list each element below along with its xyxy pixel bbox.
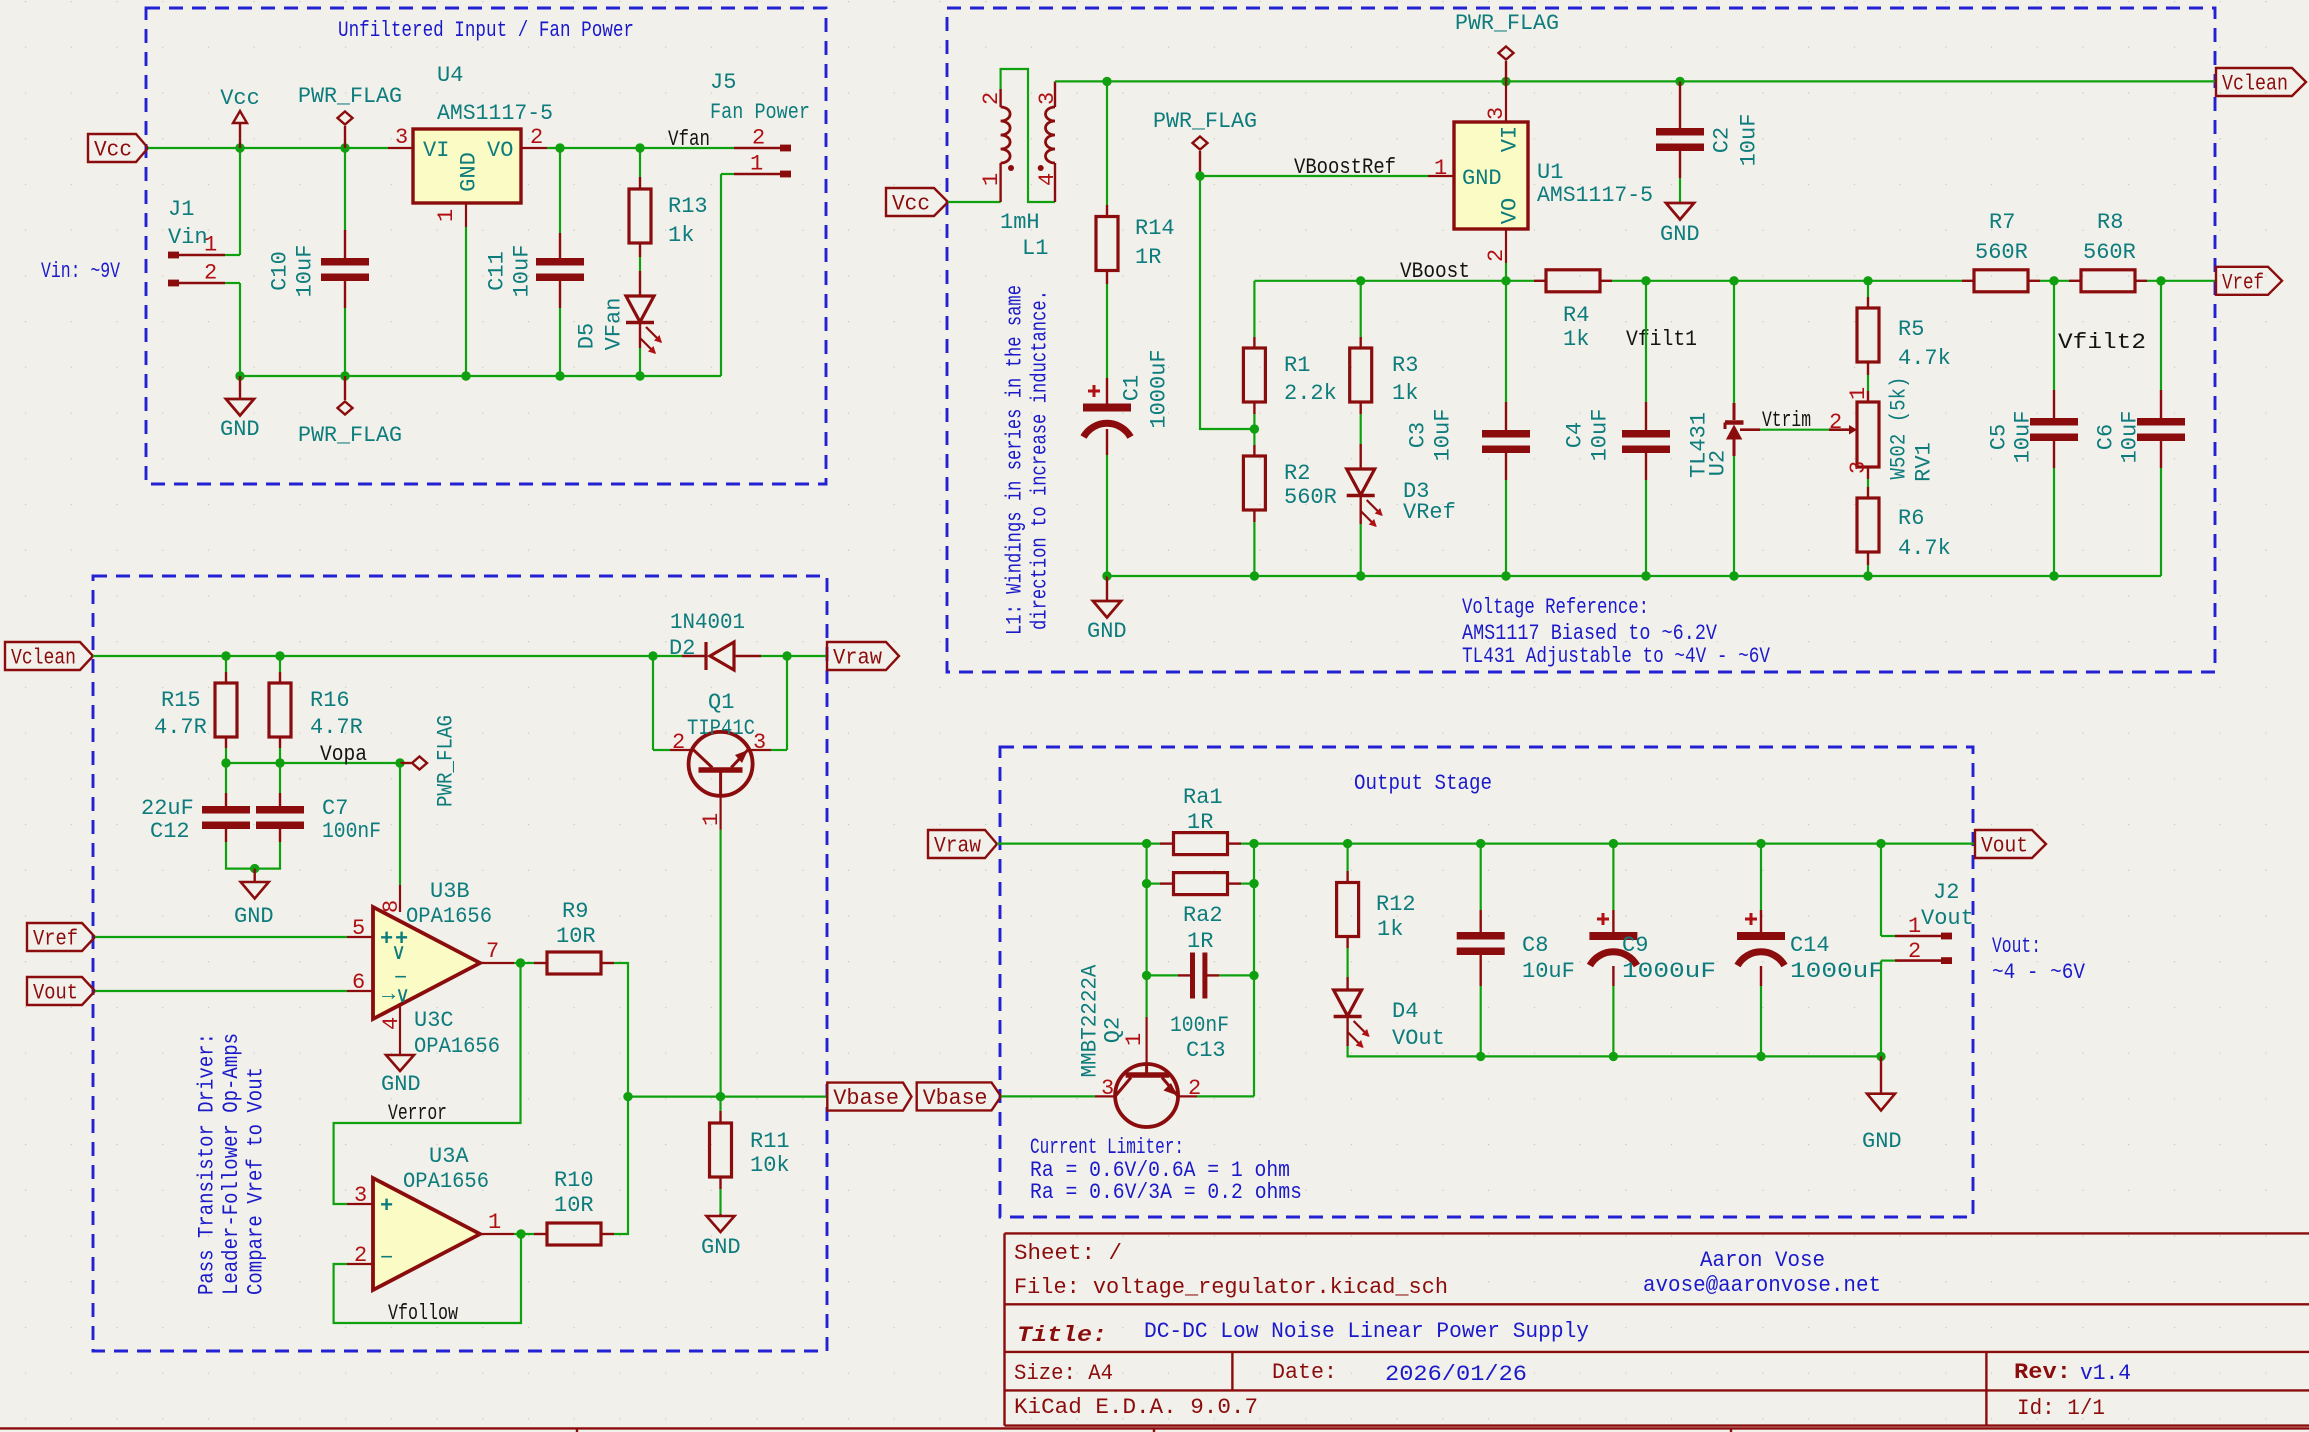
svg-text:GND: GND bbox=[1660, 222, 1700, 247]
svg-text:GND: GND bbox=[381, 1072, 421, 1097]
svg-text:2: 2 bbox=[1829, 410, 1842, 435]
svg-text:Vtrim: Vtrim bbox=[1762, 408, 1811, 433]
svg-text:GND: GND bbox=[1087, 619, 1127, 644]
svg-text:Ra1: Ra1 bbox=[1183, 785, 1223, 810]
svg-text:2: 2 bbox=[204, 261, 217, 286]
svg-text:1k: 1k bbox=[668, 223, 694, 248]
svg-text:2026/01/26: 2026/01/26 bbox=[1385, 1362, 1527, 1387]
svg-text:1R: 1R bbox=[1187, 929, 1213, 954]
svg-text:1R: 1R bbox=[1135, 245, 1161, 270]
svg-text:avose@aaronvose.net: avose@aaronvose.net bbox=[1643, 1273, 1881, 1298]
svg-text:Date:: Date: bbox=[1272, 1360, 1337, 1385]
svg-text:U3B: U3B bbox=[430, 879, 470, 904]
svg-text:R1: R1 bbox=[1284, 353, 1310, 378]
svg-text:10k: 10k bbox=[750, 1153, 790, 1178]
svg-text:4: 4 bbox=[1035, 173, 1060, 186]
svg-text:1: 1 bbox=[1846, 387, 1871, 400]
svg-text:R7: R7 bbox=[1989, 210, 2015, 235]
svg-text:10uF: 10uF bbox=[2011, 411, 2036, 464]
svg-text:L1: L1 bbox=[1022, 236, 1048, 261]
svg-text:1: 1 bbox=[750, 152, 763, 177]
svg-text:U2: U2 bbox=[1706, 450, 1731, 476]
svg-text:C10: C10 bbox=[268, 251, 293, 291]
svg-text:VI: VI bbox=[423, 138, 449, 163]
svg-text:2: 2 bbox=[1188, 1076, 1201, 1101]
svg-text:J1: J1 bbox=[168, 197, 194, 222]
svg-text:2: 2 bbox=[530, 125, 543, 150]
svg-text:1: 1 bbox=[1434, 156, 1447, 181]
svg-text:GND: GND bbox=[457, 152, 482, 192]
svg-text:Id: 1/1: Id: 1/1 bbox=[2017, 1396, 2105, 1421]
svg-text:Vin: Vin bbox=[168, 225, 208, 250]
svg-text:Vout: Vout bbox=[33, 981, 78, 1006]
svg-text:Vopa: Vopa bbox=[320, 742, 367, 767]
svg-text:DC-DC Low Noise Linear Power S: DC-DC Low Noise Linear Power Supply bbox=[1144, 1319, 1589, 1344]
svg-text:U4: U4 bbox=[437, 63, 463, 88]
svg-text:C9: C9 bbox=[1622, 933, 1648, 958]
svg-text:4: 4 bbox=[379, 1017, 404, 1030]
svg-text:C8: C8 bbox=[1522, 933, 1548, 958]
svg-text:10uF: 10uF bbox=[1737, 114, 1762, 167]
svg-text:Q1: Q1 bbox=[708, 690, 734, 715]
svg-text:R11: R11 bbox=[750, 1129, 790, 1154]
svg-text:C2: C2 bbox=[1710, 127, 1735, 153]
svg-text:10uF: 10uF bbox=[2118, 411, 2143, 464]
svg-text:3: 3 bbox=[395, 125, 408, 150]
svg-text:R9: R9 bbox=[562, 899, 588, 924]
svg-text:1000uF: 1000uF bbox=[1147, 349, 1172, 428]
svg-text:VI: VI bbox=[1498, 126, 1523, 152]
svg-text:10uF: 10uF bbox=[1431, 409, 1456, 462]
svg-text:KiCad E.D.A. 9.0.7: KiCad E.D.A. 9.0.7 bbox=[1014, 1395, 1258, 1420]
svg-text:C13: C13 bbox=[1186, 1038, 1226, 1063]
svg-text:PWR_FLAG: PWR_FLAG bbox=[298, 84, 402, 109]
svg-text:1: 1 bbox=[979, 173, 1004, 186]
svg-text:C11: C11 bbox=[485, 251, 510, 291]
svg-text:Ra = 0.6V/3A = 0.2 ohms: Ra = 0.6V/3A = 0.2 ohms bbox=[1030, 1180, 1302, 1205]
svg-text:Vref: Vref bbox=[2222, 270, 2264, 295]
svg-text:R15: R15 bbox=[161, 688, 201, 713]
svg-text:Leader-Follower Op-Amps: Leader-Follower Op-Amps bbox=[219, 1033, 244, 1295]
svg-text:GND: GND bbox=[701, 1235, 741, 1260]
svg-text:PWR_FLAG: PWR_FLAG bbox=[1455, 11, 1559, 36]
svg-text:Vref: Vref bbox=[33, 927, 78, 952]
svg-text:RV1: RV1 bbox=[1912, 442, 1937, 482]
svg-text:C3: C3 bbox=[1406, 422, 1431, 448]
svg-text:7: 7 bbox=[486, 939, 499, 964]
svg-text:C7: C7 bbox=[322, 796, 348, 821]
svg-text:Pass Transistor Driver:: Pass Transistor Driver: bbox=[195, 1033, 220, 1295]
svg-text:R13: R13 bbox=[668, 194, 708, 219]
svg-text:OPA1656: OPA1656 bbox=[414, 1034, 500, 1059]
svg-text:2: 2 bbox=[752, 126, 765, 151]
svg-text:Vfilt1: Vfilt1 bbox=[1626, 327, 1697, 352]
svg-text:PWR_FLAG: PWR_FLAG bbox=[298, 423, 402, 448]
svg-text:D4: D4 bbox=[1392, 999, 1418, 1024]
svg-text:1k: 1k bbox=[1563, 327, 1589, 352]
svg-text:5: 5 bbox=[352, 916, 365, 941]
svg-text:100nF: 100nF bbox=[1170, 1013, 1229, 1038]
svg-text:Vout: Vout bbox=[1981, 834, 2028, 859]
svg-text:4.7k: 4.7k bbox=[1898, 536, 1951, 561]
svg-text:Vclean: Vclean bbox=[2222, 72, 2288, 97]
svg-text:GND: GND bbox=[1862, 1129, 1902, 1154]
svg-text:Vcc: Vcc bbox=[94, 138, 132, 163]
svg-text:Compare Vref to Vout: Compare Vref to Vout bbox=[244, 1067, 269, 1295]
svg-text:Vbase: Vbase bbox=[923, 1086, 988, 1111]
svg-text:3: 3 bbox=[354, 1183, 367, 1208]
svg-text:4.7R: 4.7R bbox=[154, 715, 207, 740]
svg-text:R16: R16 bbox=[310, 688, 350, 713]
svg-text:TL431 Adjustable to ~4V - ~6V: TL431 Adjustable to ~4V - ~6V bbox=[1462, 644, 1771, 669]
svg-text:2: 2 bbox=[354, 1243, 367, 1268]
svg-text:OPA1656: OPA1656 bbox=[406, 904, 492, 929]
svg-text:VOut: VOut bbox=[1392, 1026, 1445, 1051]
svg-text:∨: ∨ bbox=[392, 941, 405, 966]
svg-text:Vcc: Vcc bbox=[220, 86, 260, 111]
svg-text:VRef: VRef bbox=[1403, 500, 1456, 525]
svg-text:R8: R8 bbox=[2097, 210, 2123, 235]
svg-text:1k: 1k bbox=[1377, 917, 1403, 942]
svg-text:Q2: Q2 bbox=[1101, 1017, 1126, 1043]
svg-text:MMBT2222A: MMBT2222A bbox=[1078, 964, 1103, 1078]
svg-text:R5: R5 bbox=[1898, 317, 1924, 342]
svg-text:Output Stage: Output Stage bbox=[1354, 771, 1492, 796]
svg-text:3: 3 bbox=[1101, 1076, 1114, 1101]
svg-text:Verror: Verror bbox=[388, 1101, 447, 1126]
svg-text:Vin: ~9V: Vin: ~9V bbox=[41, 259, 121, 284]
svg-text:→: → bbox=[382, 982, 396, 1007]
svg-text:Voltage Reference:: Voltage Reference: bbox=[1462, 595, 1649, 620]
svg-text:VBoost: VBoost bbox=[1400, 259, 1470, 284]
svg-text:Fan Power: Fan Power bbox=[710, 100, 810, 125]
svg-text:Current Limiter:: Current Limiter: bbox=[1030, 1135, 1184, 1160]
svg-text:10uF: 10uF bbox=[293, 245, 318, 298]
svg-text:100nF: 100nF bbox=[322, 819, 381, 844]
svg-text:10R: 10R bbox=[554, 1193, 594, 1218]
svg-text:U3A: U3A bbox=[429, 1144, 469, 1169]
svg-text:Vraw: Vraw bbox=[934, 834, 981, 859]
svg-text:VBoostRef: VBoostRef bbox=[1294, 155, 1396, 180]
svg-text:1R: 1R bbox=[1187, 810, 1213, 835]
svg-text:Ra2: Ra2 bbox=[1183, 903, 1223, 928]
svg-text:Unfiltered Input / Fan Power: Unfiltered Input / Fan Power bbox=[338, 18, 634, 43]
svg-text:Aaron Vose: Aaron Vose bbox=[1700, 1248, 1825, 1273]
svg-text:VO: VO bbox=[1498, 198, 1523, 224]
svg-text:File: voltage_regulator.kicad_: File: voltage_regulator.kicad_sch bbox=[1014, 1275, 1448, 1300]
svg-text:10R: 10R bbox=[556, 924, 596, 949]
svg-text:10uF: 10uF bbox=[510, 245, 535, 298]
svg-text:4.7R: 4.7R bbox=[310, 715, 363, 740]
svg-text:R3: R3 bbox=[1392, 353, 1418, 378]
svg-text:VO: VO bbox=[487, 138, 513, 163]
svg-text:2: 2 bbox=[979, 92, 1004, 105]
svg-text:1: 1 bbox=[434, 209, 459, 222]
svg-text:2: 2 bbox=[1484, 249, 1509, 262]
svg-text:Vfan: Vfan bbox=[668, 127, 710, 152]
svg-text:D5: D5 bbox=[575, 323, 600, 349]
svg-text:Vfilt2: Vfilt2 bbox=[2058, 330, 2146, 355]
svg-text:Rev:: Rev: bbox=[2014, 1360, 2071, 1385]
svg-text:v1.4: v1.4 bbox=[2080, 1361, 2131, 1386]
svg-text:Vout: Vout bbox=[1921, 906, 1974, 931]
svg-text:PWR_FLAG: PWR_FLAG bbox=[1153, 109, 1257, 134]
svg-text:3: 3 bbox=[1484, 107, 1509, 120]
svg-text:560R: 560R bbox=[1975, 240, 2028, 265]
svg-text:Vclean: Vclean bbox=[11, 646, 76, 671]
svg-text:1: 1 bbox=[699, 813, 724, 826]
svg-text:AMS1117-5: AMS1117-5 bbox=[437, 101, 553, 126]
svg-text:560R: 560R bbox=[2083, 240, 2136, 265]
svg-text:C5: C5 bbox=[1987, 424, 2012, 450]
svg-text:U3C: U3C bbox=[414, 1008, 454, 1033]
svg-text:Vout:: Vout: bbox=[1992, 934, 2041, 959]
svg-text:1000uF: 1000uF bbox=[1622, 959, 1716, 984]
svg-text:Vfollow: Vfollow bbox=[388, 1301, 458, 1326]
svg-text:+: + bbox=[380, 1194, 393, 1219]
svg-text:C1: C1 bbox=[1120, 375, 1145, 401]
svg-text:C14: C14 bbox=[1790, 933, 1830, 958]
svg-text:D2: D2 bbox=[669, 636, 695, 661]
svg-text:560R: 560R bbox=[1284, 485, 1337, 510]
svg-text:−: − bbox=[380, 1246, 393, 1271]
svg-text:R10: R10 bbox=[554, 1168, 594, 1193]
svg-text:GND: GND bbox=[1462, 166, 1502, 191]
svg-text:TIP41C: TIP41C bbox=[687, 716, 755, 741]
svg-text:∨: ∨ bbox=[396, 984, 409, 1009]
svg-text:R4: R4 bbox=[1563, 303, 1589, 328]
svg-text:Size: A4: Size: A4 bbox=[1014, 1361, 1113, 1386]
svg-text:10uF: 10uF bbox=[1588, 409, 1613, 462]
svg-text:AMS1117 Biased to ~6.2V: AMS1117 Biased to ~6.2V bbox=[1462, 621, 1718, 646]
svg-text:1N4001: 1N4001 bbox=[670, 610, 745, 635]
svg-text:1mH: 1mH bbox=[1000, 210, 1040, 235]
svg-text:U1: U1 bbox=[1537, 160, 1563, 185]
svg-text:Vbase: Vbase bbox=[833, 1086, 899, 1111]
svg-text:3: 3 bbox=[1846, 461, 1871, 474]
svg-text:R2: R2 bbox=[1284, 461, 1310, 486]
svg-text:L1: Windings in series in the: L1: Windings in series in the same bbox=[1003, 285, 1028, 635]
svg-text:C12: C12 bbox=[150, 819, 190, 844]
svg-text:C6: C6 bbox=[2094, 424, 2119, 450]
svg-text:1000uF: 1000uF bbox=[1790, 959, 1884, 984]
svg-text:6: 6 bbox=[352, 970, 365, 995]
svg-text:1: 1 bbox=[1122, 1033, 1147, 1046]
svg-text:J5: J5 bbox=[710, 70, 736, 95]
svg-text:J2: J2 bbox=[1933, 880, 1959, 905]
svg-text:2.2k: 2.2k bbox=[1284, 381, 1337, 406]
svg-text:GND: GND bbox=[234, 904, 274, 929]
svg-text:W502 (5k): W502 (5k) bbox=[1887, 377, 1912, 480]
svg-text:1: 1 bbox=[488, 1210, 501, 1235]
svg-text:Title:: Title: bbox=[1017, 1323, 1107, 1348]
svg-text:Sheet: /: Sheet: / bbox=[1014, 1241, 1122, 1266]
svg-text:4.7k: 4.7k bbox=[1898, 346, 1951, 371]
svg-text:OPA1656: OPA1656 bbox=[403, 1169, 489, 1194]
svg-text:AMS1117-5: AMS1117-5 bbox=[1537, 183, 1653, 208]
svg-text:1k: 1k bbox=[1392, 381, 1418, 406]
svg-text:GND: GND bbox=[220, 417, 260, 442]
svg-text:Vraw: Vraw bbox=[833, 646, 882, 671]
svg-text:PWR_FLAG: PWR_FLAG bbox=[434, 715, 459, 807]
svg-text:VFan: VFan bbox=[602, 298, 627, 351]
svg-text:C4: C4 bbox=[1563, 422, 1588, 448]
svg-text:3: 3 bbox=[1035, 92, 1060, 105]
svg-text:Vcc: Vcc bbox=[892, 192, 930, 217]
svg-text:2: 2 bbox=[672, 730, 685, 755]
svg-text:R14: R14 bbox=[1135, 216, 1175, 241]
svg-text:1: 1 bbox=[1908, 914, 1921, 939]
svg-text:22uF: 22uF bbox=[141, 796, 194, 821]
svg-text:direction to increase inductan: direction to increase inductance. bbox=[1028, 290, 1053, 630]
svg-text:2: 2 bbox=[1908, 939, 1921, 964]
svg-text:R6: R6 bbox=[1898, 506, 1924, 531]
svg-text:~4 - ~6V: ~4 - ~6V bbox=[1992, 960, 2086, 985]
svg-text:R12: R12 bbox=[1376, 892, 1416, 917]
svg-text:10uF: 10uF bbox=[1522, 959, 1575, 984]
